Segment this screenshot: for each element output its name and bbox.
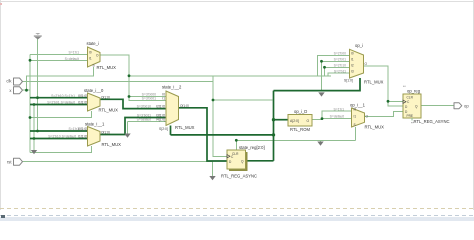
node op_reg C bbox=[387, 100, 390, 103]
wire op_i riser I3 bbox=[328, 73, 350, 76]
wire state_i select stub bbox=[27, 67, 94, 90]
svg-text:S=2'b01,S=default: S=2'b01,S=default bbox=[47, 101, 75, 105]
wire x port horizontal bbox=[23, 89, 31, 91]
svg-text:I0[1:0]: I0[1:0] bbox=[78, 94, 87, 98]
svg-text:state_reg[2:0]: state_reg[2:0] bbox=[239, 145, 265, 150]
svg-text:S=2'b11: S=2'b11 bbox=[334, 69, 346, 73]
svg-text:S=default: S=default bbox=[330, 115, 344, 119]
ground G5 below W140 bbox=[317, 142, 323, 146]
svg-text:I1[1:0]: I1[1:0] bbox=[78, 135, 87, 139]
svg-text:S[1:0]: S[1:0] bbox=[344, 78, 353, 82]
port rst bbox=[7, 158, 23, 165]
ground G4 below op_i select bus bbox=[318, 92, 324, 96]
svg-text:I0: I0 bbox=[351, 51, 354, 55]
svg-text:RTL_MUX: RTL_MUX bbox=[364, 80, 384, 85]
svg-text:O[1:0]: O[1:0] bbox=[101, 95, 110, 99]
wire op_i riser I1 bbox=[322, 61, 350, 90]
wire rst row bbox=[23, 161, 213, 163]
node op_i riser1 bbox=[320, 60, 323, 63]
svg-text:S=3'b001: S=3'b001 bbox=[142, 97, 156, 101]
bus state_i__0 I0 row bbox=[30, 97, 88, 99]
node state_reg CLR bbox=[235, 139, 238, 142]
wire state_i__2 I1 bbox=[129, 97, 166, 101]
svg-text:S: S bbox=[93, 64, 95, 68]
port clk bbox=[6, 78, 22, 85]
svg-text:RTL_MUX: RTL_MUX bbox=[365, 125, 385, 130]
wire op_reg C row bbox=[388, 100, 403, 102]
node V2 bus1 bbox=[33, 103, 36, 106]
node x-V1 bbox=[25, 89, 28, 92]
node state_i I0 branch bbox=[128, 95, 131, 98]
svg-text:I0[1:0]: I0[1:0] bbox=[78, 127, 87, 131]
ground G1 top bbox=[34, 33, 42, 40]
node op_i riser2 bbox=[323, 66, 326, 69]
node S rail bbox=[272, 133, 275, 136]
svg-text:state_i: state_i bbox=[87, 41, 99, 46]
svg-text:op_i__1: op_i__1 bbox=[350, 103, 366, 108]
wire op_i__1 output bbox=[365, 112, 404, 117]
bus state_i__2 out to state_reg D bbox=[179, 108, 228, 161]
bus Q riser x273.5 bbox=[273, 91, 275, 161]
svg-text:S=1'b1: S=1'b1 bbox=[333, 107, 344, 111]
bus state_i__1 out to state_i__2 I3 bbox=[100, 118, 166, 135]
wire state_i__2 I0 bbox=[129, 96, 166, 98]
svg-text:state_i__1: state_i__1 bbox=[85, 121, 105, 126]
svg-text:I0: I0 bbox=[354, 107, 357, 111]
node rom feed bbox=[272, 118, 275, 121]
svg-text:O[1:0]: O[1:0] bbox=[101, 131, 110, 135]
svg-text:S=2'b10: S=2'b10 bbox=[334, 63, 347, 67]
wire op_i output bbox=[364, 66, 404, 106]
svg-text:S[2:0]: S[2:0] bbox=[159, 127, 168, 131]
ground G3 state_i__2 I4 bbox=[124, 134, 130, 138]
bus state_i__1 I0 row bbox=[30, 130, 88, 132]
wire CLR net W140 bbox=[236, 139, 355, 141]
node V1 select0 bbox=[29, 116, 32, 119]
svg-text:op: op bbox=[464, 104, 469, 109]
node V2 bus2 bbox=[33, 137, 36, 140]
svg-text:S=1'b1: S=1'b1 bbox=[68, 50, 79, 54]
ground G3 stem bbox=[127, 122, 129, 134]
svg-text:RTL_MUX: RTL_MUX bbox=[99, 108, 119, 113]
svg-text:op_i_D: op_i_D bbox=[294, 109, 307, 114]
bus Q to rom A bbox=[274, 119, 289, 121]
svg-text:S=2'b10,S=1'b1: S=2'b10,S=1'b1 bbox=[51, 94, 75, 98]
wire rom out to op_i__1 I1 bbox=[312, 119, 352, 120]
port x bbox=[9, 87, 22, 94]
node op_i__1 I1 bbox=[321, 117, 324, 120]
ground G5 stem bbox=[320, 140, 322, 141]
svg-text:RTL_MUX: RTL_MUX bbox=[102, 142, 122, 147]
svg-text:A[2:0]: A[2:0] bbox=[290, 119, 299, 123]
bus state_i__0 I1 row bbox=[30, 104, 88, 106]
svg-text:S=2'b10,S=default: S=2'b10,S=default bbox=[48, 135, 76, 139]
bus state_reg Q out bbox=[246, 160, 274, 162]
node state_i out branch bbox=[128, 74, 131, 77]
bus state_i__2 select from S rail bbox=[170, 126, 172, 135]
wire H_A state_i out long run to op_i bbox=[129, 75, 331, 77]
svg-text:op_i: op_i bbox=[355, 43, 363, 48]
svg-text:I3: I3 bbox=[351, 69, 354, 73]
ground G2 left rail bbox=[31, 150, 37, 154]
svg-text:I2: I2 bbox=[351, 63, 354, 67]
ground G6 rst end bbox=[209, 176, 215, 180]
node G1 state_i I1 bbox=[29, 59, 32, 62]
svg-text:state_i__2: state_i__2 bbox=[162, 85, 182, 90]
svg-text:RTL_MUX: RTL_MUX bbox=[175, 125, 195, 130]
svg-text:RTL_REG_ASYNC: RTL_REG_ASYNC bbox=[414, 119, 450, 124]
svg-text:S=default: S=default bbox=[137, 118, 151, 122]
svg-text:I1: I1 bbox=[351, 57, 354, 61]
page boundary dashed lines bottom bbox=[0, 209, 474, 222]
bus Q to op_i select bbox=[274, 78, 361, 91]
svg-text:RTL_ROM: RTL_ROM bbox=[290, 127, 310, 132]
wire state_i I1 row (S=default) bbox=[30, 59, 88, 61]
node G1 bus0 bbox=[36, 96, 39, 99]
wire op_i__1 I0 bbox=[322, 111, 352, 118]
svg-text:O: O bbox=[307, 119, 310, 123]
wire state_i__0 select return bbox=[30, 111, 92, 118]
svg-text:S: S bbox=[354, 123, 356, 127]
wire state_i__1 select return bbox=[30, 146, 92, 153]
wire clk horizontal bbox=[23, 81, 214, 83]
bus S[2:0] rail horizontal bbox=[171, 134, 274, 136]
wire V1 x-net vertical bbox=[29, 55, 31, 153]
svg-text:I2[1:0]: I2[1:0] bbox=[156, 105, 165, 109]
bus state_i__1 I1 row bbox=[30, 138, 88, 140]
svg-text:CLR: CLR bbox=[407, 95, 414, 99]
node clk branch bbox=[212, 99, 215, 102]
svg-text:op_reg: op_reg bbox=[407, 88, 421, 93]
svg-text:I4[1:0]: I4[1:0] bbox=[156, 118, 165, 122]
wire clk branch to Q riser at y100 bbox=[213, 99, 273, 101]
wire state_i__2 I4 with gnd bbox=[128, 121, 167, 123]
wire clk vertical riser x213 down to state_reg C bbox=[213, 76, 227, 157]
svg-text:O[1:0]: O[1:0] bbox=[180, 104, 189, 108]
svg-text:RTL_MUX: RTL_MUX bbox=[97, 65, 117, 70]
svg-text:S=3'b010: S=3'b010 bbox=[137, 105, 151, 109]
svg-text:I1: I1 bbox=[162, 97, 165, 101]
wire op_reg Q to op port bbox=[421, 105, 454, 107]
wire state_reg CLR stub bbox=[235, 140, 237, 150]
ground G6 stem bbox=[212, 162, 214, 176]
svg-text:state_i__0: state_i__0 bbox=[84, 88, 104, 93]
svg-text:clk: clk bbox=[6, 79, 12, 84]
svg-text:PRE: PRE bbox=[407, 114, 414, 118]
svg-text:I0: I0 bbox=[89, 51, 92, 55]
wire op_i riser I2 bbox=[325, 67, 350, 76]
port op output bbox=[454, 103, 469, 109]
svg-text:S=default: S=default bbox=[65, 57, 79, 61]
wire state_i output to x129 bbox=[100, 55, 129, 97]
svg-text:I1: I1 bbox=[89, 56, 92, 60]
bus state_i__0 out to state_i__2 I2 bbox=[100, 99, 166, 108]
decorative pixel bbox=[0, 3, 2, 5]
wire op_i__1 select riser bbox=[355, 127, 357, 140]
svg-text:RTL_REG_ASYNC: RTL_REG_ASYNC bbox=[221, 173, 257, 178]
svg-text:I1: I1 bbox=[354, 115, 357, 119]
svg-text:S=2'b01: S=2'b01 bbox=[334, 57, 347, 61]
wire op_i riser I0 bbox=[318, 55, 350, 76]
svg-text:S=2'b00: S=2'b00 bbox=[334, 51, 347, 55]
ground G1 stem bbox=[37, 39, 39, 132]
svg-text:I1[1:0]: I1[1:0] bbox=[78, 101, 87, 105]
wire V2 gnd rail bbox=[33, 105, 35, 151]
node G1 bus row2 bbox=[36, 130, 39, 133]
wire state_i I0 row bbox=[30, 54, 88, 56]
